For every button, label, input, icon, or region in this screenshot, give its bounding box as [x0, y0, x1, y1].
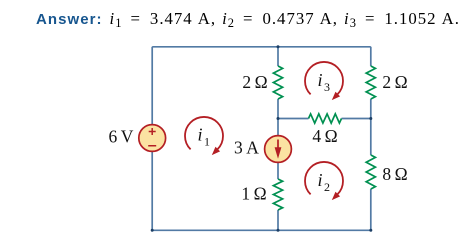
svg-text:1 Ω: 1 Ω: [241, 184, 266, 204]
svg-text:6 V: 6 V: [109, 127, 134, 147]
svg-text:i: i: [318, 70, 323, 90]
svg-text:4 Ω: 4 Ω: [312, 126, 337, 146]
svg-text:3: 3: [324, 80, 330, 94]
svg-text:3 A: 3 A: [234, 138, 259, 158]
svg-text:i: i: [318, 170, 323, 190]
svg-text:8 Ω: 8 Ω: [382, 164, 407, 184]
svg-text:1: 1: [204, 135, 210, 149]
svg-text:i: i: [198, 125, 203, 145]
svg-text:2 Ω: 2 Ω: [382, 72, 407, 92]
svg-text:2 Ω: 2 Ω: [242, 72, 267, 92]
svg-text:2: 2: [324, 180, 330, 194]
